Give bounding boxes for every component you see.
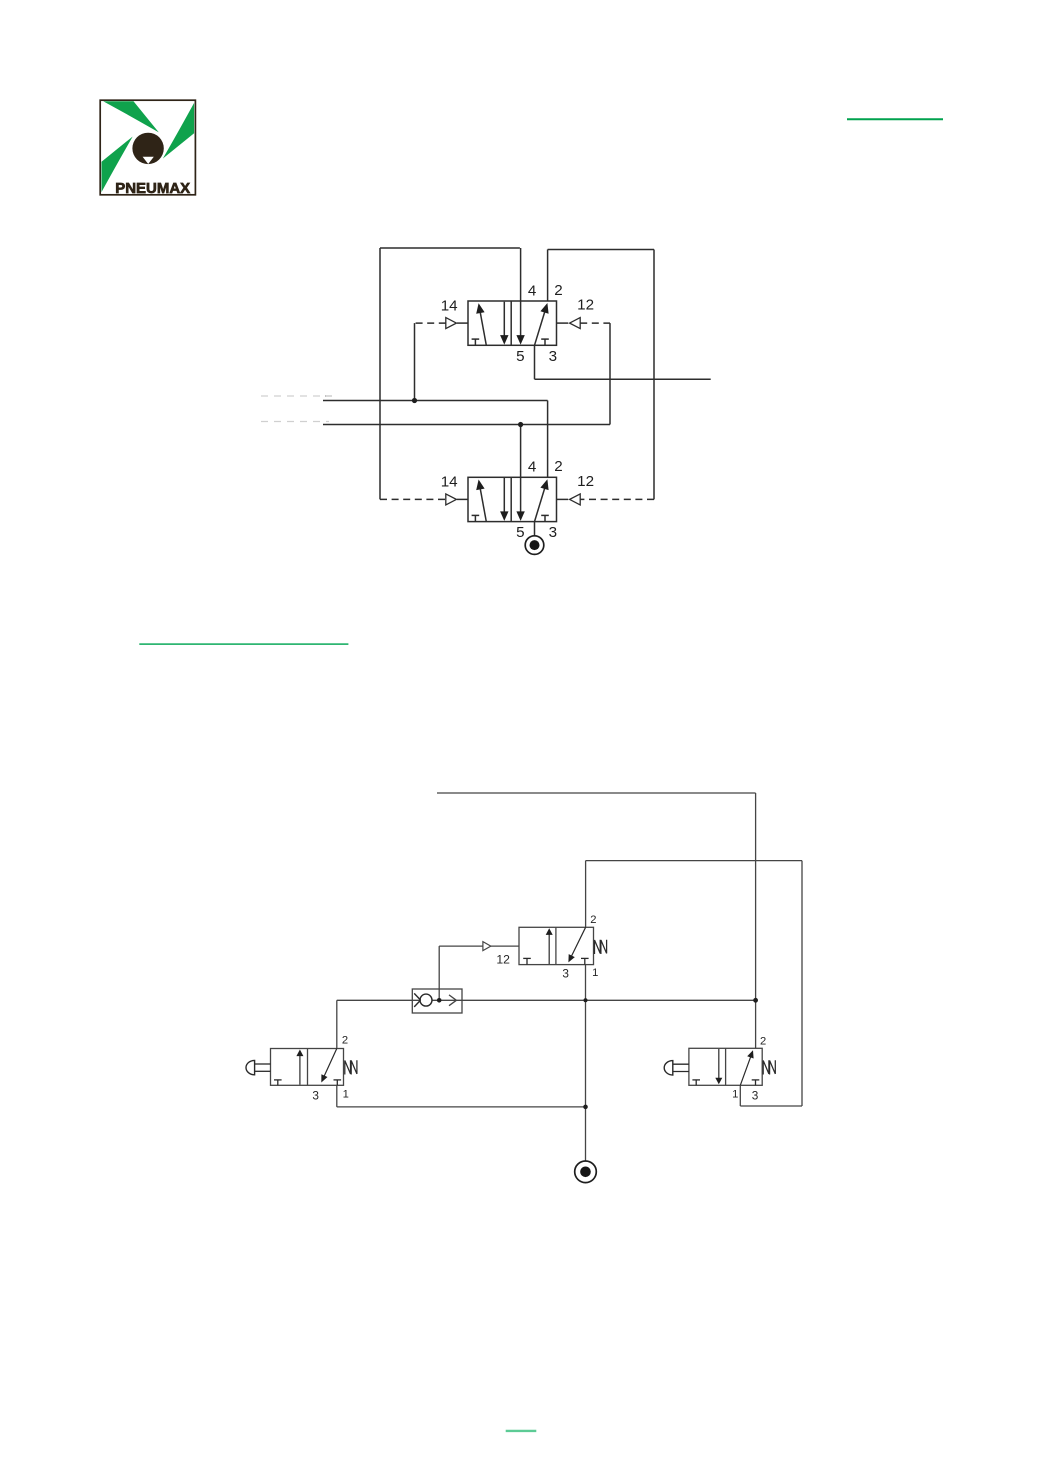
svg-text:5: 5 bbox=[516, 348, 524, 365]
svg-text:2: 2 bbox=[554, 458, 562, 475]
svg-text:1: 1 bbox=[343, 1089, 349, 1101]
svg-text:2: 2 bbox=[554, 282, 562, 299]
svg-text:12: 12 bbox=[577, 473, 594, 490]
svg-text:5: 5 bbox=[516, 524, 524, 541]
svg-text:PNEUMAX: PNEUMAX bbox=[115, 180, 190, 197]
svg-text:2: 2 bbox=[342, 1035, 348, 1047]
svg-text:3: 3 bbox=[549, 524, 557, 541]
svg-text:14: 14 bbox=[441, 297, 458, 314]
svg-text:3: 3 bbox=[549, 348, 557, 365]
svg-text:1: 1 bbox=[732, 1089, 738, 1101]
svg-text:1: 1 bbox=[592, 967, 598, 979]
svg-text:2: 2 bbox=[590, 914, 596, 926]
svg-text:2: 2 bbox=[760, 1036, 766, 1048]
svg-text:3: 3 bbox=[562, 967, 569, 981]
svg-text:14: 14 bbox=[441, 474, 458, 491]
svg-text:3: 3 bbox=[312, 1089, 319, 1103]
svg-text:12: 12 bbox=[577, 297, 594, 314]
svg-text:4: 4 bbox=[528, 459, 536, 476]
svg-text:3: 3 bbox=[752, 1089, 759, 1103]
svg-text:12: 12 bbox=[496, 952, 510, 966]
svg-text:4: 4 bbox=[528, 282, 536, 299]
